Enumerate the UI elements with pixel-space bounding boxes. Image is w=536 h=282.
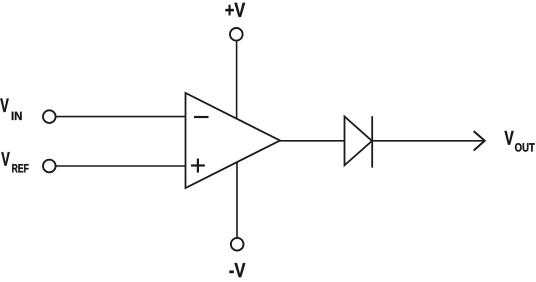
wire +V to op-amp positive supply pin [236, 41, 238, 119]
op-amp non-inverting input plus sign [191, 159, 205, 173]
op-amp inverting input minus sign [194, 116, 209, 118]
wire op-amp negative supply pin to -V [236, 162, 238, 237]
wire op-amp output to diode anode [280, 140, 345, 142]
terminal VIN [43, 110, 56, 123]
wire diode cathode to output arrow [372, 140, 484, 142]
wire VIN to op-amp inverting input [56, 116, 185, 118]
node VOUT label [504, 131, 534, 152]
power -V label [229, 263, 245, 277]
arrowhead at VOUT [474, 131, 485, 150]
node VREF label [1, 152, 28, 172]
terminal +V [230, 28, 243, 41]
diode D1 [345, 116, 373, 167]
terminal -V [231, 238, 244, 251]
node VIN label [0, 99, 21, 120]
op-amp U1 [186, 93, 281, 188]
terminal VREF [43, 160, 56, 173]
wire VREF to op-amp non-inverting input [56, 165, 185, 167]
power +V label [225, 3, 245, 17]
